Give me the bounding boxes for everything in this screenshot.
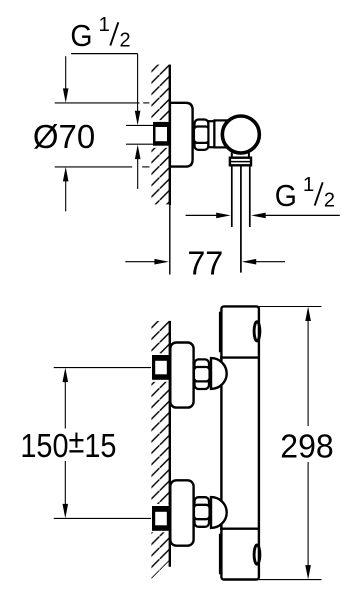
svg-text:G: G xyxy=(70,19,92,53)
svg-text:Ø70: Ø70 xyxy=(33,118,95,155)
svg-text:298: 298 xyxy=(280,428,333,465)
svg-text:77: 77 xyxy=(187,244,223,281)
svg-text:G: G xyxy=(275,179,297,213)
svg-text:1: 1 xyxy=(303,174,314,196)
svg-text:2: 2 xyxy=(324,190,335,212)
svg-text:2: 2 xyxy=(119,30,130,52)
svg-text:150±15: 150±15 xyxy=(20,423,116,465)
svg-text:1: 1 xyxy=(99,14,110,36)
